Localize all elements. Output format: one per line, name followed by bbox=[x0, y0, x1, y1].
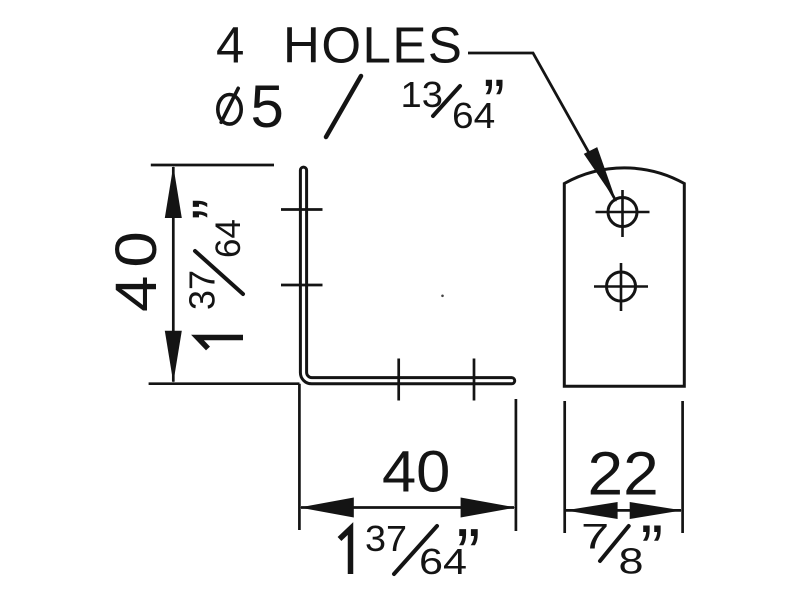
bottom hole crosshair vertical bbox=[620, 263, 623, 311]
dim text 1 37/64 inch (vertical) bbox=[178, 198, 251, 348]
bottom dimension line bbox=[301, 506, 514, 509]
svg-text:”: ” bbox=[456, 515, 480, 595]
bottom hole bbox=[607, 272, 636, 301]
svg-text:37: 37 bbox=[365, 519, 407, 559]
centerline tick lower (vertical arm) bbox=[281, 284, 323, 287]
dim text 1 37/64 inch (bottom) bbox=[340, 515, 481, 595]
svg-text:”: ” bbox=[483, 65, 505, 138]
scan speck bbox=[441, 295, 444, 298]
svg-text:4: 4 bbox=[216, 16, 244, 73]
centerline tick upper (vertical arm) bbox=[281, 208, 323, 211]
bottom dimension: right extension line bbox=[515, 399, 518, 531]
width dimension (right view): left extension line bbox=[563, 401, 566, 533]
svg-text:64: 64 bbox=[209, 219, 248, 258]
svg-text:7: 7 bbox=[581, 518, 609, 557]
top hole bbox=[608, 198, 637, 227]
arrowhead left-out bbox=[565, 502, 617, 519]
svg-text:5: 5 bbox=[251, 73, 284, 140]
note: big slash separator bbox=[326, 76, 361, 137]
arrowhead right-out bbox=[630, 502, 682, 519]
svg-text:13: 13 bbox=[401, 74, 443, 115]
note: diameter symbol circle bbox=[218, 95, 241, 125]
top hole crosshair vertical bbox=[621, 190, 624, 237]
note: diameter symbol slash bbox=[221, 88, 238, 122]
svg-text:40: 40 bbox=[382, 439, 450, 504]
svg-text:”: ” bbox=[178, 198, 251, 220]
centerline tick left (horizontal arm) bbox=[397, 359, 400, 401]
right view: plate outline with arc top bbox=[564, 168, 684, 386]
leader line from HOLES to top hole bbox=[468, 53, 616, 201]
vertical dimension line bbox=[172, 167, 175, 382]
arrowhead up bbox=[165, 166, 182, 218]
centerline tick right (horizontal arm) bbox=[473, 359, 476, 401]
svg-text:”: ” bbox=[641, 511, 664, 587]
arrowhead right bbox=[461, 498, 516, 518]
note: fraction slash bbox=[433, 86, 460, 116]
bottom dimension (left view): left extension line bbox=[298, 384, 301, 530]
note: 4 HOLES bbox=[216, 16, 463, 73]
vertical dimension: bottom extension line bbox=[149, 382, 300, 385]
arrowhead down bbox=[165, 331, 182, 383]
vertical dimension: top extension line bbox=[151, 164, 274, 167]
svg-text:40: 40 bbox=[104, 223, 169, 312]
arrowhead left bbox=[299, 498, 353, 518]
left view: L-profile outline bbox=[300, 167, 514, 384]
svg-text:HOLES: HOLES bbox=[283, 16, 463, 73]
width dimension line bbox=[566, 509, 681, 512]
bottom hole crosshair horizontal bbox=[594, 285, 648, 288]
svg-text:22: 22 bbox=[588, 440, 659, 508]
fraction slash bbox=[600, 526, 629, 561]
width dimension: right extension line bbox=[681, 401, 684, 533]
top hole crosshair horizontal bbox=[596, 211, 650, 214]
leader arrowhead bbox=[584, 147, 617, 202]
svg-text:37: 37 bbox=[182, 270, 223, 310]
